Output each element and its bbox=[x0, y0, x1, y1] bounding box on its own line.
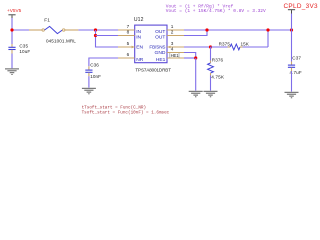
node junction at +V5V5 rail bbox=[10, 28, 13, 31]
svg-text:EN: EN bbox=[136, 45, 143, 51]
ground under C37 bbox=[285, 92, 299, 98]
wire R375 riser to output rail bbox=[267, 30, 269, 47]
pin 2 OUT bbox=[155, 30, 184, 41]
wire HE1 to junction bbox=[184, 57, 196, 59]
wire main input horizontal bbox=[12, 29, 29, 31]
node junction pin8 net bbox=[94, 34, 97, 37]
svg-text:R376: R376 bbox=[212, 58, 224, 63]
wire junction to ground bbox=[195, 58, 197, 91]
svg-text:0451001.MRL: 0451001.MRL bbox=[46, 39, 76, 44]
svg-text:OUT: OUT bbox=[155, 29, 165, 35]
svg-text:7: 7 bbox=[127, 24, 130, 29]
svg-text:C35: C35 bbox=[19, 43, 28, 48]
svg-text:6: 6 bbox=[127, 52, 130, 57]
svg-text:Tsoft_start = Func(10nF) = 1.6: Tsoft_start = Func(10nF) = 1.6msec bbox=[82, 111, 170, 116]
svg-text:IN: IN bbox=[136, 29, 141, 35]
wire OUT pin2 riser bbox=[184, 30, 207, 36]
svg-text:HE1: HE1 bbox=[171, 53, 180, 58]
svg-text:CPLD_3V3: CPLD_3V3 bbox=[284, 3, 319, 10]
svg-text:1: 1 bbox=[171, 24, 174, 29]
pin number HE1 boxed label bbox=[170, 53, 179, 58]
svg-text:OUT: OUT bbox=[155, 35, 165, 41]
pin 3 FB/SNS bbox=[149, 41, 184, 49]
svg-text:IN: IN bbox=[136, 35, 141, 41]
svg-text:F1: F1 bbox=[44, 18, 50, 24]
node junction pin7 net bbox=[94, 28, 97, 31]
pin 7 IN bbox=[118, 24, 142, 35]
svg-text:10nF: 10nF bbox=[90, 74, 101, 79]
svg-text:15K: 15K bbox=[241, 41, 250, 46]
pin 8 IN bbox=[118, 30, 142, 41]
wire NR to C36 bbox=[89, 58, 118, 66]
ground under C36 bbox=[82, 88, 96, 94]
power symbol CPLD_3V3 bbox=[284, 3, 319, 30]
fuse F1 bbox=[29, 18, 78, 44]
pin HE1 thermal pad bbox=[156, 57, 184, 63]
svg-text:TPS7A8001DRBT: TPS7A8001DRBT bbox=[135, 68, 171, 73]
wire fuse to IC pin7 bbox=[78, 29, 118, 31]
pin 1 OUT bbox=[155, 24, 184, 35]
svg-text:4: 4 bbox=[171, 47, 174, 52]
wire OUT pin1 to output rail bbox=[184, 29, 292, 31]
wire output rail down to C37 bbox=[291, 30, 293, 62]
svg-text:U12: U12 bbox=[134, 17, 144, 23]
svg-text:HE1: HE1 bbox=[156, 57, 166, 63]
svg-text:C37: C37 bbox=[292, 56, 301, 61]
wire C37 to ground bbox=[291, 71, 293, 91]
pin 5 EN bbox=[118, 41, 143, 50]
wire C35 to ground bbox=[11, 54, 13, 69]
pin 4 GND bbox=[155, 47, 184, 56]
node junction R375 top bbox=[266, 28, 269, 31]
svg-text:FB/SNS: FB/SNS bbox=[149, 45, 165, 50]
svg-text:8: 8 bbox=[127, 30, 130, 35]
resistor R376 4.75K bbox=[208, 47, 225, 91]
resistor R375 15K bbox=[211, 41, 269, 50]
power symbol +V5V5 bbox=[7, 8, 22, 18]
svg-text:+V5V5: +V5V5 bbox=[7, 8, 22, 13]
svg-text:R375: R375 bbox=[219, 41, 231, 46]
node junction HE1/GND bbox=[194, 56, 197, 59]
svg-text:2: 2 bbox=[171, 30, 174, 35]
wire vertical feed to pin8 and EN bbox=[96, 30, 119, 47]
node junction FB bbox=[209, 45, 212, 48]
wire to pin8 bbox=[96, 35, 119, 37]
wire GND pin to corner bbox=[184, 53, 196, 59]
pin 6 NR bbox=[118, 52, 144, 63]
capacitor C37 bbox=[288, 56, 302, 76]
node junction output rail at power bbox=[290, 28, 293, 31]
wire C36 to ground bbox=[88, 76, 90, 87]
ground under C35 bbox=[5, 69, 19, 75]
ground under R376 bbox=[204, 91, 218, 97]
svg-text:5: 5 bbox=[127, 41, 130, 46]
svg-text:10uF: 10uF bbox=[19, 49, 30, 54]
svg-text:NR: NR bbox=[136, 57, 144, 63]
svg-text:3: 3 bbox=[171, 41, 174, 46]
capacitor C35 bbox=[8, 43, 30, 54]
node junction OUT join bbox=[205, 28, 208, 31]
svg-text:GND: GND bbox=[155, 50, 166, 56]
svg-text:C36: C36 bbox=[90, 62, 99, 67]
regulator U12 body bbox=[134, 17, 171, 73]
svg-text:4.75K: 4.75K bbox=[211, 75, 225, 80]
wire +V5V5 rail vertical bbox=[11, 18, 13, 44]
ground under HE1/GND bbox=[189, 91, 203, 97]
capacitor C36 bbox=[85, 62, 101, 79]
wire FB to junction bbox=[184, 46, 211, 48]
svg-text:Vout = (1 + 15K/4.75K) * 0.8V: Vout = (1 + 15K/4.75K) * 0.8V = 3.32V bbox=[166, 8, 266, 14]
